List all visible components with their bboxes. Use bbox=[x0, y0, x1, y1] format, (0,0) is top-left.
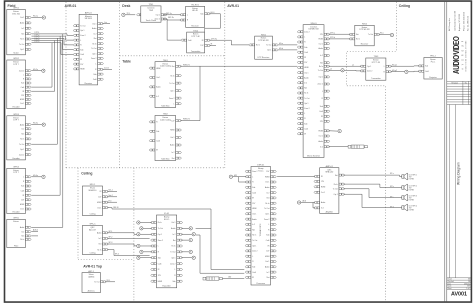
svg-text:RF-1: RF-1 bbox=[107, 280, 111, 282]
svg-text:Sub: Sub bbox=[266, 235, 269, 237]
device M5 amplifier bbox=[314, 165, 345, 214]
wire fork M6 bbox=[239, 177, 247, 182]
svg-text:Opt 1: Opt 1 bbox=[367, 65, 371, 68]
svg-text:Cat6: Cat6 bbox=[158, 262, 162, 265]
svg-text:AUDIO⁄VIDEO: AUDIO⁄VIDEO bbox=[452, 36, 461, 74]
svg-text:HDMI: HDMI bbox=[97, 202, 102, 204]
svg-text:Phone: 555.000.0000: Phone: 555.000.0000 bbox=[463, 11, 465, 31]
svg-text:HDMI: HDMI bbox=[321, 187, 326, 189]
svg-text:In 2: In 2 bbox=[252, 224, 255, 226]
svg-text:Tx Out: Tx Out bbox=[264, 207, 270, 210]
svg-text:AD-C6T: AD-C6T bbox=[89, 228, 97, 231]
wire speaker 3 bbox=[344, 189, 402, 198]
svg-text:Projector: Projector bbox=[429, 76, 437, 79]
svg-text:Ceiling: Ceiling bbox=[81, 172, 92, 176]
device M6 DSP processor bbox=[245, 165, 276, 285]
svg-text:NET-1b: NET-1b bbox=[168, 17, 174, 19]
wall outlet bbox=[140, 227, 143, 230]
svg-text:Tx Out: Tx Out bbox=[304, 97, 310, 100]
svg-text:L: L bbox=[158, 246, 159, 248]
wall outlet bbox=[42, 16, 45, 19]
svg-text:Zone 2: Zone 2 bbox=[169, 98, 174, 100]
wire bbox=[32, 231, 39, 233]
svg-text:PRJ-1: PRJ-1 bbox=[430, 56, 436, 58]
svg-text:Tx Out: Tx Out bbox=[368, 33, 374, 36]
svg-text:AVR-01: AVR-01 bbox=[85, 12, 93, 15]
svg-text:HD-b: HD-b bbox=[279, 48, 283, 50]
svg-text:Rx In: Rx In bbox=[170, 75, 174, 77]
svg-text:TSW: TSW bbox=[149, 10, 153, 12]
svg-text:In 2: In 2 bbox=[98, 238, 101, 240]
svg-text:Ceiling: Ceiling bbox=[399, 4, 410, 8]
svg-text:AVR-01: AVR-01 bbox=[65, 4, 77, 8]
wire bus run bbox=[32, 34, 74, 35]
svg-text:Amplifier: Amplifier bbox=[326, 210, 334, 213]
wire bbox=[143, 227, 152, 229]
svg-text:Cat6: Cat6 bbox=[80, 53, 84, 56]
svg-text:In 2: In 2 bbox=[304, 83, 307, 85]
svg-text:Encoder: Encoder bbox=[13, 210, 20, 213]
svg-text:Opt 1: Opt 1 bbox=[170, 89, 174, 92]
wall outlet bbox=[192, 233, 195, 236]
svg-text:L: L bbox=[175, 269, 176, 271]
svg-text:L: L bbox=[23, 177, 24, 179]
svg-text:RX02: RX02 bbox=[362, 24, 368, 26]
svg-text:Out 1: Out 1 bbox=[20, 16, 24, 19]
svg-text:Zone 2: Zone 2 bbox=[252, 171, 257, 173]
svg-text:Out 1: Out 1 bbox=[265, 260, 269, 263]
wire bbox=[107, 196, 117, 198]
svg-text:Opt 1: Opt 1 bbox=[158, 233, 162, 236]
wire bbox=[107, 244, 137, 246]
svg-text:Rx In: Rx In bbox=[319, 66, 323, 68]
svg-text:Opt 1: Opt 1 bbox=[319, 76, 323, 79]
wire speaker 1 bbox=[344, 175, 402, 176]
svg-text:DTP Receiver: DTP Receiver bbox=[258, 56, 270, 59]
wire M4a out2 bbox=[391, 71, 405, 73]
svg-text:SOUND VISION CONTROL SYSTEMS: SOUND VISION CONTROL SYSTEMS bbox=[466, 40, 468, 71]
svg-text:L: L bbox=[23, 75, 24, 77]
device F2 transmitter bbox=[7, 58, 31, 108]
wire bbox=[181, 239, 189, 241]
svg-text:Zone2: Zone2 bbox=[104, 67, 109, 69]
wall outlet bbox=[137, 244, 140, 247]
svg-text:L: L bbox=[252, 176, 253, 178]
wire speaker 2 bbox=[344, 184, 402, 187]
svg-text:Audio: Audio bbox=[318, 140, 322, 143]
svg-text:Pro L: Pro L bbox=[431, 60, 436, 63]
svg-text:Zone 2: Zone 2 bbox=[155, 19, 160, 21]
svg-text:AVR-01: AVR-01 bbox=[227, 4, 239, 8]
company logo AUDIO VIDEO bbox=[452, 36, 467, 74]
svg-text:Sub: Sub bbox=[80, 49, 83, 51]
svg-text:DM MD 8x8: DM MD 8x8 bbox=[309, 29, 319, 31]
svg-text:Audio: Audio bbox=[265, 266, 269, 269]
svg-text:L: L bbox=[384, 66, 385, 68]
svg-text:CLG SPK 3: CLG SPK 3 bbox=[409, 195, 417, 197]
svg-text:Sub: Sub bbox=[158, 257, 161, 259]
svg-text:Pwr: Pwr bbox=[109, 199, 112, 202]
wire outlet M6 bbox=[233, 176, 247, 178]
svg-text:CLG SPK 1: CLG SPK 1 bbox=[409, 174, 417, 176]
wire outlet to M4b bbox=[408, 70, 419, 73]
svg-text:DTP HD RX: DTP HD RX bbox=[359, 29, 370, 31]
svg-text:L: L bbox=[268, 224, 269, 226]
svg-text:Drawn: Drawn bbox=[447, 279, 452, 281]
device A1 AVR receiver bbox=[73, 12, 103, 85]
device D1 touch panel bbox=[141, 4, 167, 22]
svg-text:Audio: Audio bbox=[156, 86, 160, 89]
wall outlet bbox=[42, 123, 45, 126]
svg-text:By: By bbox=[465, 83, 467, 85]
svg-text:UA 864: UA 864 bbox=[88, 276, 94, 279]
svg-text:CLG SPK 2: CLG SPK 2 bbox=[409, 185, 417, 187]
svg-text:Expander: Expander bbox=[163, 285, 171, 288]
svg-text:Opt 1: Opt 1 bbox=[92, 52, 96, 55]
wire bbox=[107, 190, 117, 192]
zone boundary ceiling-left bbox=[77, 168, 79, 260]
svg-text:Zone 2: Zone 2 bbox=[264, 219, 269, 221]
svg-text:DTP-5: DTP-5 bbox=[35, 41, 40, 43]
svg-text:Audio: Audio bbox=[171, 227, 175, 230]
wall outlet bbox=[189, 227, 192, 230]
svg-text:DB: DB bbox=[468, 281, 470, 283]
svg-text:Encoder: Encoder bbox=[13, 157, 20, 160]
wall outlet bbox=[122, 13, 125, 16]
svg-text:Cat6: Cat6 bbox=[319, 110, 323, 113]
svg-text:Tx Out: Tx Out bbox=[170, 251, 176, 254]
wall outlet bbox=[42, 69, 45, 72]
svg-text:HD-p2: HD-p2 bbox=[392, 70, 397, 72]
svg-text:HD-c: HD-c bbox=[380, 33, 384, 35]
svg-text:Audio: Audio bbox=[20, 22, 24, 25]
svg-text:09/12/14: 09/12/14 bbox=[464, 283, 470, 285]
svg-text:Tx Out: Tx Out bbox=[333, 188, 339, 191]
wall outlet bbox=[140, 250, 143, 253]
zone boundary table-right bbox=[133, 168, 135, 301]
svg-text:Sub: Sub bbox=[304, 47, 307, 49]
svg-text:Cat6: Cat6 bbox=[156, 139, 160, 142]
device F5 plate bbox=[7, 218, 31, 248]
svg-text:HD-3a: HD-3a bbox=[33, 123, 38, 125]
svg-text:WP05: WP05 bbox=[13, 218, 19, 220]
speaker SPK3 bbox=[402, 194, 417, 201]
svg-text:Desk: Desk bbox=[122, 4, 130, 8]
svg-text:HD-p1: HD-p1 bbox=[392, 64, 397, 66]
wire drop to D3 bbox=[167, 20, 182, 40]
svg-text:In 2: In 2 bbox=[320, 55, 323, 57]
wire bus run bbox=[32, 43, 74, 55]
svg-text:SPK-C: SPK-C bbox=[89, 224, 96, 226]
speaker SPK2 bbox=[402, 184, 417, 191]
svg-text:Rx In: Rx In bbox=[92, 43, 96, 45]
svg-text:Zone 2: Zone 2 bbox=[80, 35, 85, 37]
svg-text:Audio: Audio bbox=[20, 123, 24, 126]
svg-text:Audio: Audio bbox=[321, 201, 325, 204]
device M7 IO interface bbox=[151, 213, 183, 288]
svg-text:HDMI: HDMI bbox=[252, 208, 257, 210]
zone boundary AVR-01/Desk bbox=[119, 2, 121, 168]
svg-text:Table: Table bbox=[122, 60, 131, 64]
svg-text:Cat6: Cat6 bbox=[266, 239, 270, 242]
device C1 ceiling mic bbox=[82, 184, 108, 215]
device M4b display bbox=[418, 56, 442, 79]
device M1 extender rx bbox=[249, 34, 278, 59]
svg-text:Rx In: Rx In bbox=[304, 93, 308, 95]
svg-text:Sub: Sub bbox=[304, 123, 307, 125]
svg-text:Cat6: Cat6 bbox=[188, 39, 192, 42]
svg-text:Zone 2: Zone 2 bbox=[367, 71, 372, 73]
svg-text:Cable Cubby: Cable Cubby bbox=[160, 66, 171, 68]
svg-text:Rx In: Rx In bbox=[256, 45, 260, 47]
svg-text:Zone 2: Zone 2 bbox=[19, 154, 24, 156]
svg-text:Sub: Sub bbox=[252, 267, 255, 269]
svg-text:In 2: In 2 bbox=[266, 192, 269, 194]
svg-text:SP d: SP d bbox=[390, 207, 394, 209]
svg-text:CAT: CAT bbox=[228, 276, 231, 279]
svg-text:AV001: AV001 bbox=[451, 292, 467, 298]
wire C2 to M7 bbox=[107, 237, 150, 239]
svg-text:DTP-a: DTP-a bbox=[330, 32, 335, 34]
title block strip bbox=[445, 2, 447, 302]
svg-text:Cat6: Cat6 bbox=[425, 70, 429, 73]
svg-text:SP-1: SP-1 bbox=[109, 231, 113, 233]
svg-text:8 OHM: 8 OHM bbox=[409, 209, 415, 211]
svg-text:In 2: In 2 bbox=[21, 231, 24, 233]
svg-text:In 2: In 2 bbox=[172, 152, 175, 154]
svg-text:DTP T: DTP T bbox=[13, 172, 19, 174]
wall outlet bbox=[229, 175, 232, 178]
svg-text:8 OHM: 8 OHM bbox=[409, 199, 415, 201]
wire bbox=[140, 257, 152, 259]
svg-text:Net-1: Net-1 bbox=[109, 189, 113, 192]
svg-text:HD-9: HD-9 bbox=[211, 12, 215, 14]
wire bbox=[181, 251, 189, 253]
svg-text:SPA 4-60: SPA 4-60 bbox=[325, 171, 333, 174]
svg-text:Revision: Revision bbox=[452, 83, 459, 85]
device F4 transmitter bbox=[7, 167, 31, 214]
wall outlet bbox=[297, 201, 300, 204]
svg-text:WP04: WP04 bbox=[13, 167, 19, 169]
wire bbox=[102, 68, 112, 70]
svg-text:Tx Out: Tx Out bbox=[266, 44, 272, 47]
svg-text:Rx In: Rx In bbox=[265, 203, 269, 205]
svg-text:A V G R O U P: A V G R O U P bbox=[461, 40, 464, 70]
svg-text:HD-RX1: HD-RX1 bbox=[191, 5, 199, 7]
svg-text:Rx In: Rx In bbox=[356, 39, 360, 41]
svg-text:Tx Out: Tx Out bbox=[94, 281, 100, 284]
svg-text:EX-IO: EX-IO bbox=[164, 219, 170, 221]
svg-text:CLG SPK 4: CLG SPK 4 bbox=[409, 205, 417, 207]
svg-text:Tx Out: Tx Out bbox=[19, 43, 25, 46]
wire M3 out bbox=[379, 33, 390, 35]
svg-text:1 of 1: 1 of 1 bbox=[466, 288, 470, 290]
device T2 table box bbox=[149, 114, 181, 161]
svg-text:L: L bbox=[187, 15, 188, 17]
svg-text:Sub: Sub bbox=[21, 83, 24, 85]
svg-text:SW-01: SW-01 bbox=[311, 23, 318, 25]
svg-text:Audio: Audio bbox=[92, 27, 96, 30]
wall outlet bbox=[192, 256, 195, 259]
wire M2 outlet low bbox=[329, 130, 338, 132]
wire bbox=[32, 17, 42, 19]
svg-text:Out 1: Out 1 bbox=[171, 221, 175, 224]
svg-text:Cable Cubby: Cable Cubby bbox=[160, 119, 171, 121]
svg-text:Cat6: Cat6 bbox=[93, 78, 97, 81]
svg-text:Opt 1: Opt 1 bbox=[80, 29, 84, 32]
device D2 interface bbox=[180, 5, 211, 28]
wire bus drop bbox=[32, 36, 61, 195]
svg-text:Zone 2: Zone 2 bbox=[304, 32, 309, 34]
svg-text:Out 1: Out 1 bbox=[319, 135, 323, 138]
wire D1-D2 a bbox=[164, 14, 181, 16]
svg-text:No: 14-0857-01: No: 14-0857-01 bbox=[468, 15, 470, 31]
device F1 scaler bbox=[7, 8, 31, 55]
svg-text:Rx In: Rx In bbox=[334, 184, 338, 186]
wire bus drop bbox=[32, 41, 55, 92]
svg-text:RX01: RX01 bbox=[261, 34, 267, 36]
wire connector to M6 bbox=[222, 278, 244, 280]
svg-text:HD-4a: HD-4a bbox=[33, 175, 38, 177]
svg-text:Transmitter: Transmitter bbox=[191, 50, 201, 53]
svg-text:Tx Out: Tx Out bbox=[169, 82, 175, 85]
svg-text:HDMI: HDMI bbox=[318, 131, 323, 133]
svg-text:Out 1: Out 1 bbox=[92, 22, 96, 25]
svg-text:HD 4K: HD 4K bbox=[192, 10, 198, 12]
svg-text:DTP T: DTP T bbox=[13, 120, 19, 122]
svg-text:Audio: Audio bbox=[265, 186, 269, 189]
svg-text:L: L bbox=[95, 63, 96, 65]
svg-text:Audio: Audio bbox=[304, 76, 308, 79]
svg-text:SP b: SP b bbox=[390, 186, 394, 188]
svg-text:HDMI: HDMI bbox=[265, 256, 270, 258]
svg-text:Out 1: Out 1 bbox=[304, 71, 308, 74]
wire M7 area to M6 bbox=[200, 235, 244, 273]
svg-text:Rx In: Rx In bbox=[252, 235, 256, 237]
svg-text:MXA 910: MXA 910 bbox=[89, 189, 97, 192]
svg-text:Rx In: Rx In bbox=[97, 249, 101, 251]
wire outlet to M4a bbox=[344, 69, 361, 72]
svg-text:WP02: WP02 bbox=[13, 58, 19, 60]
svg-text:L: L bbox=[252, 256, 253, 258]
svg-text:Antenna: Antenna bbox=[88, 289, 96, 292]
wire M6 to M5 bbox=[277, 175, 315, 177]
svg-text:NTS: NTS bbox=[467, 286, 470, 288]
zone boundary horizontal mid bbox=[66, 167, 225, 169]
svg-text:1234 Example Ave Suite 100: 1234 Example Ave Suite 100 bbox=[454, 10, 457, 31]
svg-text:Out 1: Out 1 bbox=[20, 208, 24, 211]
svg-text:Opt 1: Opt 1 bbox=[267, 49, 271, 52]
wire T1 to M2 bbox=[180, 65, 297, 67]
svg-text:AMP-01: AMP-01 bbox=[326, 165, 334, 168]
svg-text:In 2: In 2 bbox=[21, 28, 24, 30]
svg-text:Processor: Processor bbox=[257, 282, 266, 285]
svg-text:Tx Out: Tx Out bbox=[91, 47, 97, 50]
svg-text:Sub: Sub bbox=[320, 106, 323, 108]
svg-text:Opt 1: Opt 1 bbox=[20, 48, 24, 51]
device F3 transmitter bbox=[7, 114, 31, 160]
svg-text:Checked: Checked bbox=[447, 281, 453, 283]
title mid dividers bbox=[449, 105, 455, 278]
wire bus run bbox=[32, 38, 74, 45]
svg-text:Opt 1: Opt 1 bbox=[171, 256, 175, 259]
svg-text:DSP-01: DSP-01 bbox=[257, 165, 265, 167]
svg-text:CAT-10: CAT-10 bbox=[113, 206, 119, 209]
svg-text:Ceiling: Ceiling bbox=[90, 213, 96, 215]
svg-text:SP-4: SP-4 bbox=[115, 254, 119, 256]
wire bbox=[140, 245, 152, 247]
wire M7 to riser bbox=[196, 227, 211, 229]
device T1 table box bbox=[149, 60, 181, 108]
svg-text:DTP-9a: DTP-9a bbox=[211, 38, 217, 40]
device C2 ceiling speaker unit bbox=[82, 224, 108, 255]
svg-text:Cat6: Cat6 bbox=[21, 189, 25, 192]
wire bbox=[32, 124, 42, 126]
svg-text:Audio: Audio bbox=[170, 144, 174, 147]
wire M2 connector bbox=[329, 146, 349, 148]
svg-text:SP-3: SP-3 bbox=[109, 242, 113, 244]
svg-text:Rx In: Rx In bbox=[158, 222, 162, 224]
svg-text:Zone 2: Zone 2 bbox=[304, 108, 309, 110]
svg-text:Rx In: Rx In bbox=[172, 246, 176, 248]
svg-text:Out 1: Out 1 bbox=[319, 42, 323, 45]
wire bbox=[32, 176, 42, 178]
svg-text:L: L bbox=[80, 40, 81, 42]
svg-text:Tx Out: Tx Out bbox=[158, 227, 164, 230]
svg-text:Scale: Scale bbox=[447, 286, 451, 288]
svg-text:Audio: Audio bbox=[97, 232, 101, 235]
svg-text:Opt 1: Opt 1 bbox=[265, 213, 269, 216]
wire T2 join bbox=[180, 66, 200, 120]
svg-text:HD-1a: HD-1a bbox=[33, 16, 38, 18]
svg-text:Out 1: Out 1 bbox=[265, 181, 269, 184]
svg-text:Zone 2: Zone 2 bbox=[170, 263, 175, 265]
wall outlet bbox=[189, 238, 192, 241]
svg-text:ANT-1: ANT-1 bbox=[88, 270, 95, 273]
svg-text:Wiring Diagram: Wiring Diagram bbox=[456, 162, 460, 185]
svg-text:DTP T 4K: DTP T 4K bbox=[372, 62, 381, 64]
wire C2 low to M7 bbox=[107, 250, 150, 256]
wire M1 to M2 a bbox=[278, 44, 297, 46]
zone boundary ceiling-left bottom bbox=[78, 259, 134, 261]
svg-text:HDMI-T1: HDMI-T1 bbox=[183, 64, 190, 66]
svg-text:SP-2: SP-2 bbox=[109, 237, 113, 239]
inline cable connector upper bbox=[348, 145, 367, 148]
svg-text:IO-01: IO-01 bbox=[164, 213, 170, 215]
svg-text:8 OHM: 8 OHM bbox=[409, 189, 415, 191]
wire bbox=[181, 257, 192, 259]
svg-text:In 2: In 2 bbox=[266, 272, 269, 274]
svg-text:Sub: Sub bbox=[425, 66, 428, 68]
wire M2-M3 a bbox=[329, 33, 351, 35]
svg-text:Table Box: Table Box bbox=[161, 158, 169, 160]
svg-text:Transmitter: Transmitter bbox=[371, 77, 381, 80]
svg-text:Receiver: Receiver bbox=[191, 24, 199, 27]
svg-text:Opt 1: Opt 1 bbox=[304, 102, 308, 105]
wire bbox=[143, 251, 152, 253]
svg-text:Rx In: Rx In bbox=[20, 139, 24, 141]
speaker SPK4 bbox=[402, 204, 417, 211]
wire bbox=[107, 233, 137, 235]
svg-text:Out 1: Out 1 bbox=[156, 76, 160, 79]
wire branch bbox=[196, 234, 200, 236]
wire bbox=[140, 233, 152, 235]
svg-text:Opt 1: Opt 1 bbox=[20, 148, 24, 151]
zone boundary Desk/AVR-01 bbox=[224, 2, 226, 168]
svg-text:Opt 1: Opt 1 bbox=[156, 14, 160, 17]
svg-text:Extron: Extron bbox=[13, 220, 18, 223]
svg-text:AUD-5: AUD-5 bbox=[33, 229, 38, 232]
